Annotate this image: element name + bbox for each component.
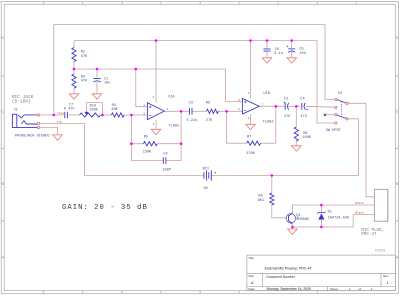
svg-text:Rev: Rev [383,274,389,278]
svg-text:C: C [396,110,399,114]
ground below C1 [92,94,102,99]
svg-text:BT1: BT1 [203,168,209,172]
capacitor C1 10u [93,78,100,80]
wire: V+ rail from R2 top across to switch contact 4 [74,41,335,124]
svg-text:4: 4 [121,291,123,295]
wire: R10 wiper loop [86,103,102,115]
svg-text:TL082: TL082 [168,124,179,128]
svg-text:5: 5 [43,291,45,295]
svg-text:180P: 180P [162,168,171,172]
svg-text:4: 4 [121,1,123,5]
wire: switch common 1 down to mic plug pin 1 [348,103,374,197]
wire: U1A output to C3 [164,110,189,112]
svg-text:C4: C4 [163,152,167,156]
svg-text:J1: J1 [14,109,18,113]
wire: U1A pin 3 bias branch [136,69,148,107]
svg-text:Black: Black [355,210,364,214]
svg-text:C4: C4 [300,98,304,102]
wire: Q1 emitter ground stem [291,227,293,229]
wire: switch contact 3 no-connect stub [326,114,335,116]
wire: U1A pin 8 to V+ rail [155,41,157,103]
svg-text:U1B: U1B [263,92,270,96]
svg-text:30K: 30K [111,108,118,112]
svg-text:1: 1 [387,281,389,285]
resistor R7 270K [247,141,261,145]
junction: U1A output node [180,110,183,113]
svg-text:D: D [1,36,4,40]
capacitor C7 0.47U [65,112,68,119]
wire: input chain jack tip to C7 [40,114,64,116]
svg-text:TL082: TL082 [263,121,274,125]
junction: V+ rail / C6 [266,39,269,42]
svg-text:8: 8 [153,96,155,99]
resistor R3 47K [72,74,76,88]
wire: Q1 collector white wire to mic plug [292,205,374,213]
svg-text:1: 1 [167,108,169,111]
ground below C5 [287,58,297,63]
svg-text:0.1u: 0.1u [274,52,283,56]
junction: R10 wiper tie [101,114,104,117]
wire: C4 to switch contact 2 [306,105,335,108]
wire: bias divider rail from R2/R3 junction to U1B pin 5 [74,69,242,102]
wire: C7 to R10 [69,114,80,116]
svg-text:R8: R8 [258,194,262,198]
svg-text:R5: R5 [144,136,148,140]
op-amp U1A TL082 [147,103,164,120]
svg-text:R7: R7 [247,135,251,139]
svg-text:2: 2 [143,112,145,115]
capacitor C2 47U [284,103,286,110]
wire: R10 to R4 [101,114,112,116]
wire: U1A feedback loop lower (C4 branch) [131,144,181,161]
capacitor C6 0.1u [264,49,271,51]
ground below U1A pin 4 [151,129,161,134]
svg-text:9K1: 9K1 [258,199,264,203]
svg-text:4: 4 [248,117,250,120]
svg-text:5: 5 [43,1,45,5]
ground below jack sleeve [53,135,63,140]
svg-text:27K: 27K [206,119,213,123]
svg-text:tip: tip [57,119,62,123]
junction: battery rail / R8 [271,174,274,177]
wire: Q1 emitter black wire to mic plug [292,215,374,227]
svg-text:U1A: U1A [168,96,175,100]
svg-text:3: 3 [199,291,201,295]
svg-text:6: 6 [238,108,240,111]
svg-text:2: 2 [277,1,279,5]
svg-text:3: 3 [199,1,201,5]
junction: feedback right split [180,142,183,145]
junction: V+ rail / U1A pin 8 [155,39,158,42]
svg-text:Size: Size [248,274,254,278]
svg-text:of: of [359,287,362,291]
wire: U1B feedback loop via R7 [227,106,276,143]
svg-text:130K: 130K [143,150,152,154]
battery BT1 9V [204,170,211,180]
capacitor C5 10U [288,48,295,50]
svg-text:SW DPDT: SW DPDT [326,129,342,133]
svg-text:F63C8: F63C8 [375,248,385,252]
svg-text:External Mic Preamp, PRC-47: External Mic Preamp, PRC-47 [265,266,312,270]
svg-text:R9: R9 [303,132,307,136]
svg-text:270K: 270K [246,152,255,156]
svg-text:White: White [355,201,364,205]
svg-text:100K: 100K [89,109,98,113]
title block [247,255,395,291]
junction: U1A pin 2 / feedback [130,114,133,117]
resistor R5 130K [143,142,157,146]
wire: R3 leads [73,69,75,94]
capacitor C3 0.22u [189,108,192,115]
resistor R6 27K [207,109,219,113]
connector J1 phonejack stereo [12,114,16,127]
wire: U1B pin 4 to ground [250,114,252,124]
resistor R8 9K1 [270,193,274,205]
connector MIC PLUG PRC-47 [374,189,388,221]
transistor Q1 MPSA05 [286,214,295,223]
wire: jack middle contact to battery minus [40,123,204,175]
svg-text:10U: 10U [299,52,305,56]
resistor R9 100K [294,127,298,141]
wire: D1 leads [320,205,322,227]
svg-text:47K: 47K [81,55,88,59]
resistor R2 47K [72,48,76,62]
junction: R2/R3 divider node [73,68,76,71]
ground below U1B pin 4 [246,124,256,129]
svg-text:S1: S1 [338,92,342,96]
junction: D1 cathode node [320,204,323,207]
zener diode D1 1N4734 [319,214,325,220]
junction: Q1 emitter node [291,226,294,229]
junction: V+ rail / C5 [290,39,293,42]
svg-text:C2: C2 [284,98,288,102]
ground below Q1 emitter [288,229,298,234]
wire: R6 to U1B pin 6 [218,110,242,112]
svg-text:47U: 47U [284,115,290,119]
wire: U1A feedback loop upper (R5 branch) [131,111,181,143]
svg-text:100K: 100K [302,136,311,140]
svg-text:1N4734_5V6: 1N4734_5V6 [328,216,350,220]
ground below R9 [292,146,302,151]
svg-text:1: 1 [355,1,357,5]
wire: C3 to R6 [192,110,206,112]
svg-text:0.47U: 0.47U [64,108,75,112]
svg-text:C: C [1,110,4,114]
wire: jack sleeve contact to ground [40,127,58,134]
junction: C1 on divider node [96,68,99,71]
svg-text:PRC-47: PRC-47 [361,233,377,237]
resistor R4 30K [111,113,124,117]
wire: R9 drop from C2/C4 junction [295,106,297,146]
svg-text:Title: Title [248,256,254,260]
wire: net from jack tip contact up and across top to switch contact 1 [54,25,335,116]
svg-text:Date:: Date: [248,287,255,291]
capacitor C4 180P (feedback) [163,157,166,164]
svg-text:7: 7 [261,103,263,106]
wire: C6 leads [266,41,268,58]
svg-text:4: 4 [153,123,155,126]
junction: U1A pin 3 branch [135,68,138,71]
svg-text:Document Number: Document Number [267,275,296,279]
svg-text:D: D [396,36,399,40]
svg-text:8: 8 [248,92,250,95]
no-connect X on switch contact 3 [324,114,326,116]
svg-text:Sheet: Sheet [330,287,338,291]
wire: U1B output to C2 [259,105,285,107]
wire: C5 leads [291,41,293,58]
junction: jack tip / top rail [53,114,56,117]
ground below C6 [262,58,272,63]
svg-text:PHONEJACK STEREO: PHONEJACK STEREO [15,134,50,138]
junction: V+ rail / U1B pin 8 [249,39,252,42]
wire: R4 to U1A pin 2 [124,114,147,116]
wire: battery plus rail to switch common 2 [212,119,359,176]
junction: D1 anode node [320,226,323,229]
switch S1 SW DPDT [335,98,337,100]
wire: R8 drop from battery rail to Q1 base [272,175,286,217]
svg-text:3: 3 [143,104,145,107]
svg-text:(D-104): (D-104) [12,98,31,104]
junction: U1B output node [275,105,278,108]
svg-text:Monday, September 14, 2009: Monday, September 14, 2009 [267,287,312,291]
potentiometer R10 100K [80,113,101,117]
junction: U1B pin 6 / R7 [225,110,228,113]
svg-text:10u: 10u [104,82,110,86]
svg-text:MPSA05: MPSA05 [296,218,309,222]
op-amp U1B TL082 [242,99,259,115]
svg-text:47U: 47U [300,115,306,119]
wire: C2 to C4 [288,105,301,107]
ground below R3 [69,94,79,99]
svg-text:0.22u: 0.22u [186,119,197,123]
svg-text:47K: 47K [81,80,88,84]
svg-text:5: 5 [238,99,240,102]
svg-text:GAIN: 20 - 35 dB: GAIN: 20 - 35 dB [62,204,148,212]
junction: C2/C4/R9 node [295,105,298,108]
wire: C1 leads [96,69,98,94]
svg-text:C3: C3 [189,101,193,105]
wire: R2 leads [73,41,75,70]
svg-text:D1: D1 [328,211,332,215]
svg-text:R6: R6 [206,101,210,105]
junction: feedback left split [130,142,133,145]
capacitor C4 47U (coupling) [301,103,303,110]
wire: U1B pin 8 to V+ rail [250,41,252,99]
wire: U1A pin 4 to ground [155,120,157,130]
